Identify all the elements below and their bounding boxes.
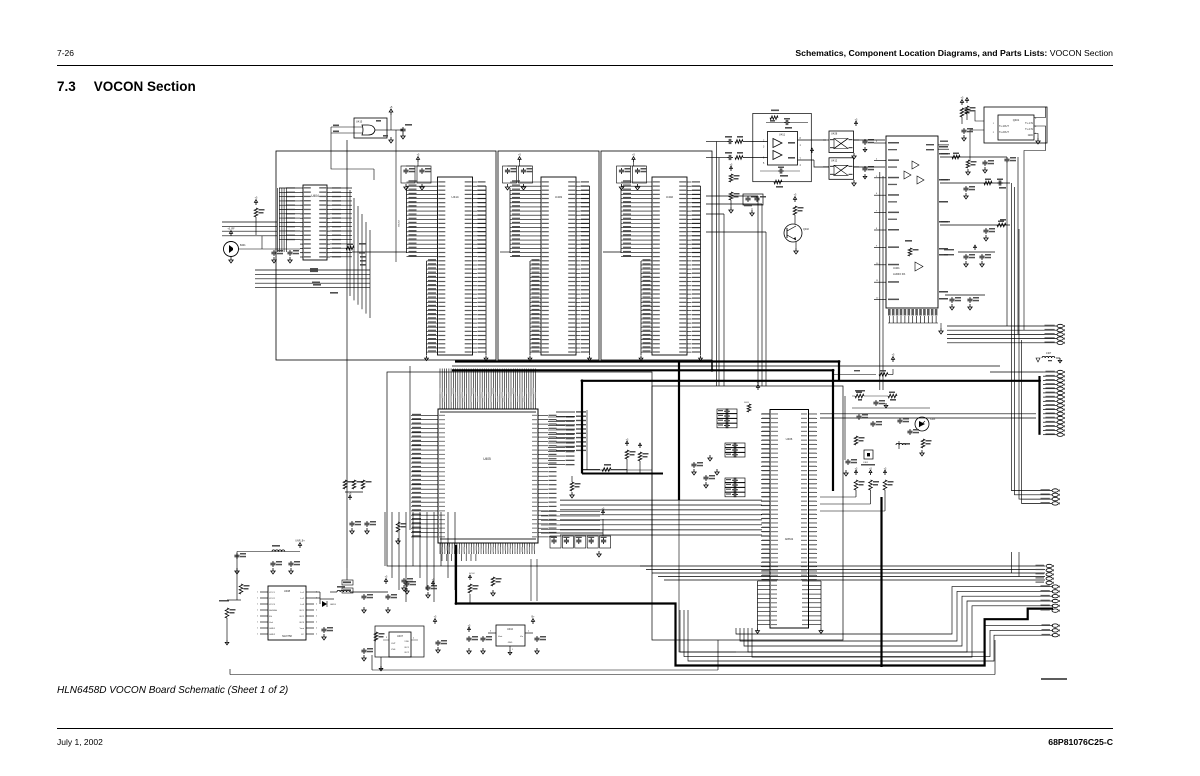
net SPK row2 [940,179,1010,200]
svg-text:U405: U405 [483,457,491,461]
svg-text:U410: U410 [507,628,514,631]
svg-text:Tx-2OUT: Tx-2OUT [999,131,1009,134]
bus T7 [880,497,882,667]
svg-text:1: 1 [257,604,258,606]
cap stack 1 [717,409,737,429]
connector U404 [279,185,352,260]
svg-text:U403: U403 [555,195,563,199]
cap C478 [961,128,973,141]
box section 1 [276,151,496,360]
svg-text:U408: U408 [284,589,291,593]
svg-text:NC1: NC1 [405,647,410,649]
svg-text:Q402: Q402 [803,228,810,231]
svg-text:Tx-1 IN: Tx-1 IN [1025,122,1033,125]
svg-text:VCC2: VCC2 [269,598,276,600]
svg-text:NC2: NC2 [405,652,410,654]
svg-text:U401: U401 [893,266,900,270]
bus T4 [679,362,736,653]
svg-text:U407: U407 [397,635,404,638]
svg-text:U406: U406 [786,437,793,441]
bus U405 to U406 [560,500,762,535]
IC U402 [603,177,702,361]
caps C421/C422 [503,154,533,190]
caps row C449 [541,507,611,557]
staircase wires [736,587,1053,657]
caps C405 C404 [262,236,300,263]
resistor R412 [254,197,264,235]
svg-text:B401: B401 [240,244,246,247]
svg-text:U415: U415 [356,120,363,124]
wire bundle U404 left [278,188,287,252]
svg-text:Q401: Q401 [1013,118,1020,122]
caps C409 C440 [691,455,719,488]
staircase wires low [680,610,1053,661]
svg-text:1: 1 [257,610,258,612]
junction dots [455,360,1041,667]
wire mosi label [855,390,865,392]
svg-text:MAX758: MAX758 [282,635,292,638]
svg-text:J407: J407 [1046,352,1052,355]
svg-text:1: 1 [257,592,258,594]
svg-text:U414: U414 [451,195,459,199]
footer rule [57,728,1113,730]
bus T6 [582,381,1040,474]
bottom wire 2 [230,640,995,675]
IC U414 [352,177,488,361]
svg-text:1: 1 [257,628,258,630]
svg-text:CC: CC [301,634,305,636]
box section 2 [498,151,599,360]
svg-text:1: 1 [257,634,258,636]
J403 pull [744,382,760,412]
baseband IC U406 [756,410,824,634]
box section 3 [601,151,712,360]
svg-text:1: 1 [257,616,258,618]
net labels right section [939,146,948,300]
figure caption [57,685,288,696]
wire U415 inputs [331,127,374,180]
svg-text:2: 2 [316,622,317,624]
svg-text:2: 2 [316,634,317,636]
labels RX TX [310,271,338,294]
svg-text:Tx-1OUT: Tx-1OUT [999,125,1009,128]
regulator U410 [466,616,546,655]
B+ sense divider [219,584,250,645]
U415 +5 supply [389,106,393,115]
caps C447 C468 [743,194,766,216]
connector group SCI [1042,624,1060,637]
oscillator U407 [361,616,447,671]
speaker B401 [224,228,263,263]
wire left of U405 [409,366,411,530]
svg-text:GND: GND [508,642,513,644]
wire R417 row [832,354,895,377]
svg-text:Tx-2 IN: Tx-2 IN [1025,128,1033,131]
svg-text:OUT: OUT [391,643,396,645]
feedback R421/C437 [766,110,808,129]
connector group B+ [1022,489,1059,505]
svg-text:1: 1 [257,622,258,624]
svg-text:D405: D405 [930,419,936,421]
transistor Q402 [784,194,810,254]
gate U415 [331,118,391,138]
caps C407/C408 [401,154,431,190]
svg-text:GND2: GND2 [269,634,276,636]
svg-text:NC3: NC3 [300,622,305,624]
wire U415 output VSTBY [396,130,399,262]
verticals analog-baseband [706,142,766,387]
wires audio left [222,222,277,236]
svg-text:Vout: Vout [300,627,305,630]
microprocessor U405 [411,369,575,562]
svg-text:2: 2 [316,610,317,612]
svg-text:+5_RF: +5_RF [227,228,235,231]
J407 ferrite [1036,352,1062,363]
svg-text:NC2: NC2 [300,616,305,618]
wires below U405 [385,512,455,602]
wire VSTBY long [346,140,348,568]
box around U406 [652,386,843,640]
svg-text:GND3: GND3 [330,604,337,606]
footer date [57,737,103,747]
connector MIC rows [947,324,1064,344]
footer document number [1048,737,1113,747]
svg-text:AUDIO PA: AUDIO PA [893,272,905,276]
svg-text:Vout: Vout [498,635,503,638]
svg-text:NC1: NC1 [300,610,305,612]
wire nest U404 right [255,190,370,318]
C435/R437 [760,167,800,188]
svg-text:GND1: GND1 [269,628,276,630]
cap stack 2 [725,443,745,458]
block Q401 [970,107,1047,330]
switch U412 [811,148,885,186]
svg-text:VCC1: VCC1 [269,592,276,594]
svg-text:VDD: VDD [404,641,409,643]
svg-text:GND: GND [1028,134,1034,137]
svg-text:Vref: Vref [269,621,273,624]
svg-text:U412: U412 [831,158,838,162]
audio PA U401 [874,136,949,334]
svg-text:2: 2 [316,628,317,630]
capacitor C408 [389,115,412,143]
net SPK row1 [940,150,1016,175]
regulator U408 [257,586,317,640]
svg-text:VSTBY: VSTBY [397,220,399,228]
bus T1 [455,362,839,381]
svg-text:UNR_B+: UNR_B+ [295,540,305,543]
svg-text:U411: U411 [779,133,786,137]
U405 right nets [556,411,586,451]
buck output network [314,576,397,640]
svg-text:VSS: VSS [391,649,396,651]
caps C486 C482 [944,245,995,267]
input network U411 [717,136,768,160]
B+ filter [234,540,305,600]
caps C487 C488 [945,295,985,310]
connector J407 [820,370,1064,436]
page number 7-26 [57,48,74,58]
bus T2 [452,365,1000,367]
SCLK network [401,573,501,603]
svg-text:SHDNA: SHDNA [269,609,277,612]
oscillator + LED cluster [844,392,936,477]
bottom wire 1 [372,640,718,670]
bus T5 [456,545,1053,666]
svg-text:2: 2 [316,604,317,606]
cap C430 [404,578,435,594]
resistor pulls [343,480,371,500]
pull resistors R442 R444 R445 [820,467,894,511]
bus T3 [452,370,833,491]
box around U405 [387,372,652,566]
svg-text:Y401: Y401 [863,462,869,464]
wires right rows [640,552,1045,580]
svg-text:U402: U402 [666,195,674,199]
net row3 [940,219,1010,241]
running header [795,48,1113,58]
svg-text:AD6522: AD6522 [785,538,794,541]
pullups right of U405 [570,438,649,498]
caps C441/C442 [617,154,647,190]
svg-text:1: 1 [257,598,258,600]
svg-text:VCC3: VCC3 [269,604,276,606]
section title 7.3 VOCON Section [57,79,196,94]
resistor R402 [346,243,366,266]
resistor R415 [396,522,407,544]
IC U403 [500,177,591,361]
svg-text:U428: U428 [831,132,838,136]
svg-text:2: 2 [316,616,317,618]
cap stack 3 [725,478,745,498]
wires below U405 right [531,559,537,601]
connector group AUX [1041,585,1060,612]
wires to J-connector [1007,157,1022,503]
switch U428 [823,118,885,159]
connector E401 [342,568,353,593]
op-amp U411 [753,113,829,181]
wires U412 down [880,172,883,390]
stack R450 R461 [729,163,740,213]
connector group MOSI [1036,564,1054,584]
svg-text:U404: U404 [311,194,319,198]
svg-text:J403: J403 [744,402,750,404]
Q401 supplies [960,97,975,124]
header rule [57,65,1113,67]
caps C440 C442 [349,521,376,534]
drawing number [1041,678,1067,680]
